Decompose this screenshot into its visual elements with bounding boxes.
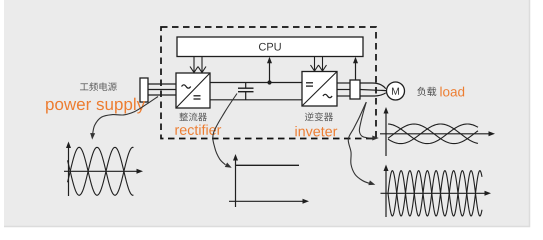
label rectifier [175, 124, 221, 135]
inverter output wires to reactor [337, 83, 350, 96]
DC level graph axes [229, 158, 306, 208]
label 工频电源 (mains supply) [80, 82, 117, 91]
CPU to inverter control arrows [311, 57, 327, 72]
sense wire reactor to CPU with up arrow [355, 60, 357, 80]
label 整流器 (rectifier) [179, 113, 207, 122]
inverter block U2 [302, 72, 337, 107]
input AC waveform strand 2 [68, 147, 134, 195]
label 负载 (load) [417, 87, 436, 96]
output low-frequency waveform axes [380, 111, 492, 157]
input AC waveform strand 1 [68, 147, 134, 195]
junction dot on DC bus [267, 80, 271, 84]
motor letter M [392, 88, 399, 95]
label power supply [46, 98, 145, 114]
CPU label [259, 43, 281, 51]
output high-frequency waveform strand 2 [388, 171, 482, 216]
CPU box U3 [177, 37, 363, 57]
3-phase input wires [148, 84, 176, 95]
leader arrow supply to AC graph [92, 97, 158, 136]
capacitor C1 on DC bus [238, 83, 254, 100]
output low-frequency waveform strand 3 [388, 124, 478, 144]
output low-frequency waveform strand 2 [388, 124, 478, 144]
output high-frequency waveform strand 1 [388, 171, 482, 216]
motor M [387, 82, 405, 100]
leader arrow capacitor to DC graph [213, 94, 237, 165]
dashed VFD enclosure box [161, 27, 376, 139]
output low-frequency waveform strand 1 [388, 124, 478, 144]
label load [440, 87, 464, 97]
label inveter [295, 126, 337, 137]
leader arrow output to low-freq graph [359, 102, 373, 138]
feedback wire DC bus to CPU with up arrow [269, 60, 271, 83]
motor feed wires (converging) [360, 83, 386, 96]
CPU to rectifier control arrows [190, 57, 206, 73]
DC bus wires rectifier to inverter [210, 83, 302, 100]
DC level line [236, 164, 300, 166]
label 逆变器 (inverter) [305, 112, 333, 121]
output reactor block [350, 80, 360, 99]
input AC waveform graph axes [64, 145, 140, 196]
output high-frequency waveform axes [381, 168, 488, 217]
leader arrow output to high-freq graph [348, 103, 369, 184]
rectifier block U1 [176, 73, 210, 108]
input terminal block [140, 78, 148, 102]
